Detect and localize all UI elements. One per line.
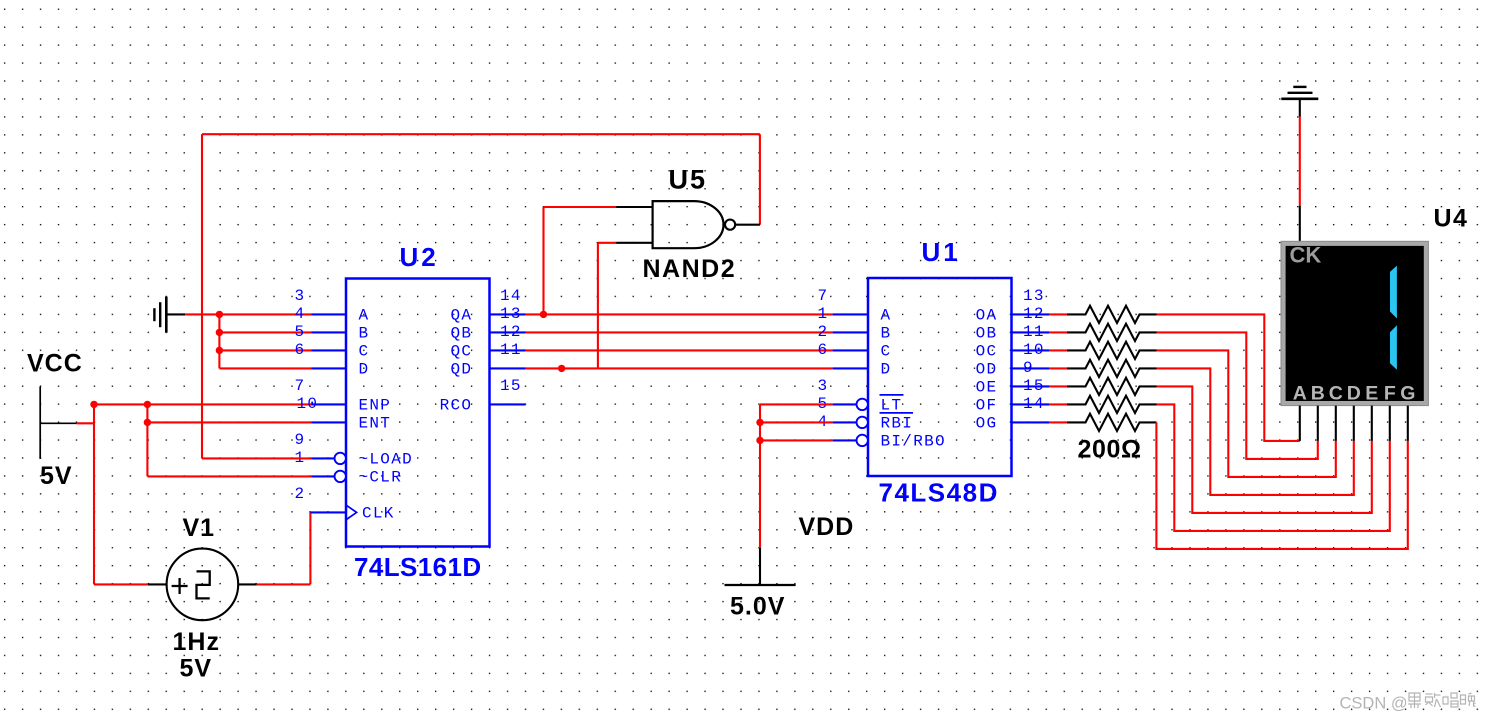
junction dot on QD row — [558, 365, 565, 372]
power symbol VDD — [725, 548, 796, 585]
svg-text:V1: V1 — [183, 514, 216, 542]
svg-text:74LS161D: 74LS161D — [354, 552, 482, 582]
svg-text:4: 4 — [295, 305, 306, 323]
svg-text:13: 13 — [1023, 287, 1045, 305]
svg-text:B: B — [359, 325, 370, 343]
junction dot ENT/branch at x=147.4 — [144, 419, 151, 426]
svg-text:QC: QC — [450, 343, 472, 361]
svg-text:13: 13 — [500, 305, 522, 323]
svg-text:U1: U1 — [922, 237, 961, 267]
IC U1 74LS48D body — [868, 278, 1012, 476]
svg-text:74LS48D: 74LS48D — [879, 478, 999, 508]
wire vertical VCC bus x=94 (down to V1, up to ENP row) — [93, 404, 95, 584]
svg-text:12: 12 — [1023, 305, 1045, 323]
U1 pin OA stub (pin 13) — [1012, 313, 1049, 315]
wire ENP row (VCC to U2.ENP) — [94, 403, 312, 405]
svg-text:D: D — [881, 361, 892, 379]
U2 pin B stub (pin 4) — [312, 331, 347, 333]
svg-text:3: 3 — [295, 287, 306, 305]
wire VDD riser x=760 — [759, 404, 761, 547]
svg-text:~LOAD: ~LOAD — [359, 451, 414, 469]
U2 pin CLK stub (pin 2) — [310, 511, 346, 513]
resistor R2 200ohm (segment B) — [1067, 324, 1157, 341]
wire feedback top horizontal y=134.2 — [202, 133, 760, 135]
svg-text:OG: OG — [976, 415, 998, 433]
display pin D stub — [1353, 406, 1355, 441]
U2 pin QC stub (pin 12) — [490, 349, 526, 351]
wire V1 right terminal to CLK riser — [257, 583, 311, 585]
svg-text:200Ω: 200Ω — [1078, 436, 1142, 464]
wire feedback left riser x=202 — [201, 134, 203, 458]
svg-text:U4: U4 — [1434, 205, 1469, 233]
resistor R7 200ohm (segment G) — [1067, 414, 1157, 431]
svg-text:2: 2 — [818, 323, 829, 341]
U1 pin A stub (pin 7) — [833, 313, 868, 315]
wire U1.OF to resistor — [1049, 403, 1067, 405]
svg-text:1: 1 — [818, 305, 829, 323]
wire NAND output riser x=759.9 — [759, 134, 761, 225]
svg-text:G: G — [1400, 382, 1415, 404]
wire QB row U2->U1 — [526, 331, 833, 333]
svg-text:5V: 5V — [40, 462, 73, 490]
junction dot gnd/B — [216, 329, 223, 336]
NAND gate U5 body — [616, 201, 760, 248]
wire NAND input B horizontal — [598, 242, 616, 244]
resistor R5 200ohm (segment E) — [1067, 378, 1157, 395]
resistor R4 200ohm (segment D) — [1067, 360, 1157, 377]
svg-text:OB: OB — [976, 325, 998, 343]
svg-text:9: 9 — [1023, 359, 1034, 377]
svg-text:A: A — [1293, 382, 1307, 404]
svg-text:C: C — [1329, 382, 1343, 404]
svg-text:A: A — [881, 307, 892, 325]
wire resistor R2 to display pin B — [1157, 332, 1318, 459]
svg-text:11: 11 — [500, 341, 522, 359]
svg-text:OC: OC — [976, 343, 998, 361]
wire U1.OB to resistor — [1049, 331, 1067, 333]
svg-text:14: 14 — [1023, 395, 1045, 413]
svg-text:B: B — [881, 325, 892, 343]
wire ENT row (branch to U2.ENT) — [147, 421, 311, 423]
junction dot VCC/ENP at x=94 — [90, 401, 97, 408]
U2 pin QA stub (pin 14) — [490, 313, 526, 315]
svg-text:U2: U2 — [400, 242, 439, 272]
svg-text:OD: OD — [976, 361, 998, 379]
wire QD row U2->U1 — [526, 367, 833, 369]
wire VCC to V1 left terminal — [94, 583, 148, 585]
svg-text:NAND2: NAND2 — [643, 255, 737, 283]
svg-text:E: E — [1365, 382, 1378, 404]
svg-text:C: C — [881, 343, 892, 361]
svg-text:OE: OE — [976, 379, 998, 397]
svg-text:RCO: RCO — [440, 397, 473, 415]
svg-text:A: A — [359, 307, 370, 325]
U1 pin OD stub (pin 10) — [1012, 367, 1049, 369]
svg-text:5: 5 — [295, 323, 306, 341]
svg-text:1Hz: 1Hz — [173, 628, 220, 656]
U2 pin numbers — [295, 287, 522, 503]
U1 pin OE stub (pin 9) — [1012, 385, 1049, 387]
display pin A stub — [1299, 406, 1301, 441]
wire U1.OD to resistor — [1049, 367, 1067, 369]
wire U1.OA to resistor — [1049, 313, 1067, 315]
overline for LT — [880, 394, 904, 396]
U1 pin B stub (pin 1) — [833, 331, 868, 333]
svg-text:VCC: VCC — [27, 349, 83, 377]
U1 pin OG stub (pin 14) — [1012, 421, 1049, 423]
U1 pin D stub (pin 6) — [833, 367, 868, 369]
U2 pin QB stub (pin 13) — [490, 331, 526, 333]
junction dot gnd/A — [216, 311, 223, 318]
svg-text:D: D — [359, 361, 370, 379]
wire resistor R5 to display pin E — [1157, 386, 1372, 513]
seven-segment display U4 — [1281, 241, 1428, 405]
svg-text:RBI: RBI — [881, 415, 914, 433]
svg-text:QA: QA — [450, 307, 472, 325]
power symbol VCC — [40, 387, 76, 459]
U2 pin C stub (pin 5) — [312, 349, 347, 351]
svg-text:5V: 5V — [180, 655, 213, 683]
svg-text:ENP: ENP — [359, 397, 392, 415]
watermark CSDN — [1340, 693, 1476, 713]
svg-text:2: 2 — [295, 485, 306, 503]
resistor R1 200ohm (segment A) — [1067, 306, 1157, 323]
wire to U2.C (row 3) — [219, 349, 311, 351]
svg-text:10: 10 — [1023, 341, 1045, 359]
svg-text:15: 15 — [500, 377, 522, 395]
display pin G stub — [1407, 406, 1409, 441]
svg-text:CLK: CLK — [362, 505, 395, 523]
U2 pin QD stub (pin 11) — [490, 367, 526, 369]
display CK pin stub — [1299, 206, 1301, 241]
U1 pin OC stub (pin 11) — [1012, 349, 1049, 351]
wire to U2.D (row 4) — [219, 367, 311, 369]
ground GND2 (top right, display CK) — [1281, 87, 1318, 117]
U2 pin ENP stub (pin 7) — [312, 403, 347, 405]
svg-text:CK: CK — [1290, 242, 1322, 267]
wire U1.OG to resistor — [1049, 421, 1067, 423]
wire ground to display CK — [1299, 117, 1301, 207]
U2 pin A stub (pin 3) — [312, 313, 347, 315]
junction dot ENP/branch at x=147.4 — [144, 401, 151, 408]
wire resistor R7 to display pin G — [1156, 422, 1407, 549]
wire U1.OC to resistor — [1049, 349, 1067, 351]
svg-text:F: F — [1384, 382, 1396, 404]
svg-text:BI/RBO: BI/RBO — [881, 433, 946, 451]
svg-text:14: 14 — [500, 287, 522, 305]
svg-text:7: 7 — [818, 287, 829, 305]
U1 pin ~LT stub with bubble (pin 3) — [833, 403, 857, 405]
wire NAND input A horizontal — [544, 206, 617, 208]
wire QA row U2->U1 (net QA) — [526, 313, 833, 315]
wire CLK riser x=310.4 — [309, 512, 311, 584]
U2 pin ~LOAD stub with bubble (pin 9) — [312, 457, 335, 459]
U1 pin numbers — [818, 287, 1045, 431]
svg-text:ENT: ENT — [359, 415, 392, 433]
svg-text:QB: QB — [450, 325, 472, 343]
resistor R3 200ohm (segment C) — [1067, 342, 1157, 359]
wire vertical gnd bus x=219.4 — [218, 314, 220, 368]
svg-text:~CLR: ~CLR — [359, 469, 403, 487]
svg-text:OA: OA — [976, 307, 998, 325]
U1 pin ~RBI stub with bubble (pin 5) — [833, 421, 857, 423]
U2 pin ENT stub (pin 10) — [312, 421, 347, 423]
U2 pin ~CLR stub with bubble (pin 1) — [312, 475, 335, 477]
wire VDD to U1.~RBI — [760, 421, 833, 423]
U1 pin name labels — [881, 307, 998, 451]
svg-text:3: 3 — [818, 377, 829, 395]
svg-text:D: D — [1347, 382, 1361, 404]
svg-text:OF: OF — [976, 397, 998, 415]
wire resistor R3 to display pin C — [1157, 350, 1336, 477]
wire QC row U2->U1 — [526, 349, 833, 351]
wire ground to U2.A (row 1) — [185, 313, 311, 315]
display pin E stub — [1371, 406, 1373, 441]
svg-text:9: 9 — [295, 431, 306, 449]
svg-text:U5: U5 — [669, 165, 708, 195]
svg-text:6: 6 — [818, 341, 829, 359]
U2 pin name labels — [359, 307, 473, 523]
svg-text:12: 12 — [500, 323, 522, 341]
ground GND1 (left, drives U2 A-D) — [154, 297, 185, 333]
svg-text:15: 15 — [1023, 377, 1045, 395]
svg-text:B: B — [1311, 382, 1325, 404]
svg-text:5.0V: 5.0V — [730, 593, 785, 621]
U1 pin C stub (pin 2) — [833, 349, 868, 351]
svg-text:QD: QD — [450, 361, 472, 379]
svg-text:10: 10 — [297, 395, 319, 413]
wire NAND input A riser x=543.5 — [542, 207, 544, 314]
junction dot QA / NAND input A riser — [540, 311, 547, 318]
display pin C stub — [1335, 406, 1337, 441]
display pin B stub — [1317, 406, 1319, 441]
svg-text:7: 7 — [295, 377, 306, 395]
U2 pin D stub (pin 6) — [312, 367, 347, 369]
junction dot VDD/BI — [756, 437, 763, 444]
display pin F stub — [1389, 406, 1391, 441]
svg-text:CSDN @: CSDN @ — [1340, 695, 1408, 713]
junction dot gnd/C — [216, 347, 223, 354]
svg-text:VDD: VDD — [799, 513, 855, 541]
wire vertical branch x=147.4 (ENP row down to CLR row) — [146, 404, 148, 476]
wire resistor R6 to display pin F — [1157, 404, 1390, 531]
resistor R6 200ohm (segment F) — [1067, 396, 1157, 413]
U1 pin OF stub (pin 15) — [1012, 403, 1049, 405]
U1 pin ~BI/RBO stub with bubble (pin 4) — [833, 439, 857, 441]
junction dot VDD/RBI — [756, 419, 763, 426]
wire U1.OE to resistor — [1049, 385, 1067, 387]
voltage source V1 (clock) — [148, 549, 257, 621]
wire feedback to U2.~LOAD — [202, 457, 312, 459]
svg-text:LT: LT — [881, 397, 903, 415]
svg-text:C: C — [359, 343, 370, 361]
svg-text:6: 6 — [295, 341, 306, 359]
wire to U2.B (row 2) — [219, 331, 311, 333]
wire CLR row (branch to U2.~CLR) — [147, 475, 311, 477]
U1 pin OB stub (pin 12) — [1012, 331, 1049, 333]
wire VCC stub to vertical — [77, 422, 94, 424]
U2 CLK edge triangle — [346, 505, 356, 519]
svg-text:11: 11 — [1023, 323, 1045, 341]
wire resistor R1 to display pin A — [1157, 314, 1300, 441]
wire VDD to U1.~LT — [760, 403, 833, 405]
wire NAND input B riser x=597.9 — [597, 243, 599, 369]
wire resistor R4 to display pin D — [1157, 368, 1354, 495]
overline for RBI — [880, 412, 914, 414]
U2 pin RCO stub (pin 15, unconnected) — [490, 403, 526, 405]
IC U2 74LS161D body — [346, 279, 490, 547]
wire VDD to U1.~BI/RBO — [760, 439, 833, 441]
